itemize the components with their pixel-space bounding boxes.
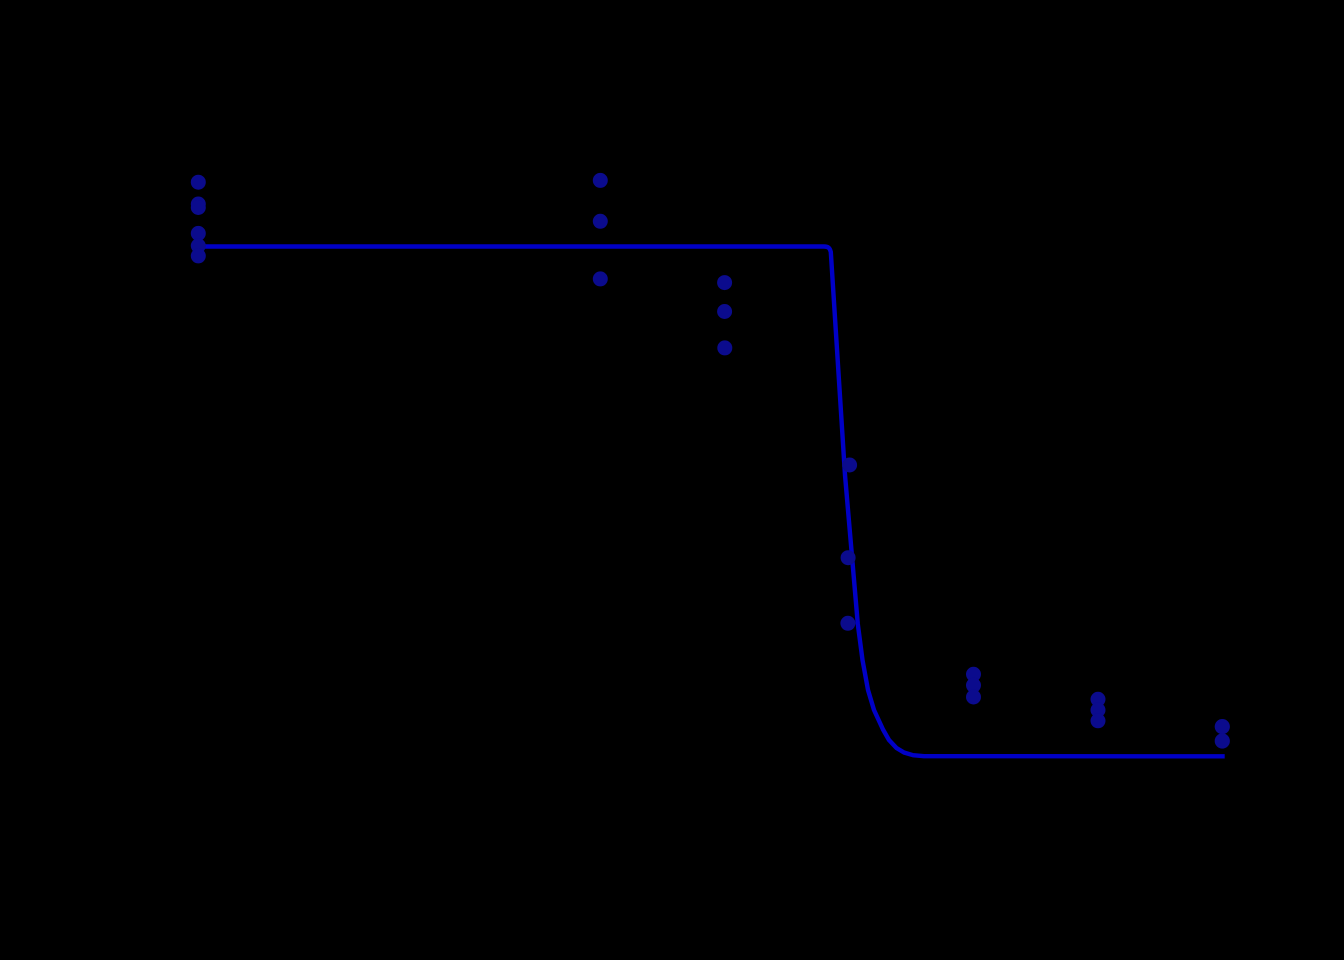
dose cluster 6 (x=1098) bbox=[1091, 692, 1106, 707]
dose cluster 4 (x=849, on slope) bbox=[842, 458, 857, 473]
dose cluster 3 (x=724) bbox=[717, 275, 732, 290]
dose cluster 5 (x=973) bbox=[966, 667, 981, 682]
data points bbox=[191, 173, 1230, 749]
dose cluster 2 (x=600) bbox=[593, 173, 608, 188]
dose cluster 7 (x=1222) bbox=[1215, 719, 1230, 734]
dose cluster 1 (x=198) bbox=[191, 175, 206, 190]
fitted curve bbox=[204, 247, 1225, 757]
